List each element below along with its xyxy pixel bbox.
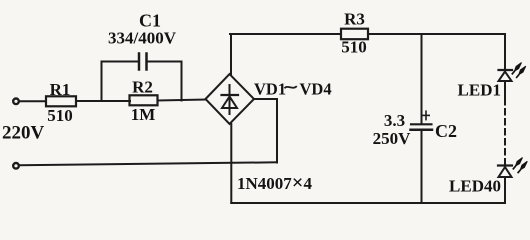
bridge diode line	[229, 85, 231, 114]
wire LED branch top	[504, 34, 506, 70]
svg-text:510: 510	[341, 38, 367, 57]
svg-text:3.3: 3.3	[384, 111, 405, 130]
LED1 cathode bar	[499, 69, 513, 71]
wire C2 branch upper	[421, 34, 423, 124]
capacitor C1 right plate	[145, 54, 148, 70]
svg-text:1M: 1M	[131, 105, 156, 124]
svg-text:1N4007×4: 1N4007×4	[237, 172, 312, 194]
wire bridge top vertex up	[230, 34, 232, 74]
wire C2 branch lower	[421, 131, 423, 204]
resistor R2 body	[130, 95, 158, 105]
svg-text:R1: R1	[50, 80, 71, 99]
svg-text:R2: R2	[132, 78, 153, 97]
node A (left junction of C1 branch)	[101, 62, 103, 102]
bridge rectifier VD1~VD4 diamond	[206, 74, 255, 124]
tilde between VD1 and VD4	[285, 86, 297, 88]
terminal L (220V live)	[13, 99, 19, 105]
LED1 triangle	[499, 72, 512, 82]
capacitor C2 bottom plate	[411, 129, 433, 132]
capacitor C2 top plate	[411, 123, 432, 125]
resistor R3 body	[341, 29, 368, 40]
wire bottom bus	[231, 202, 505, 204]
wire top bus left segment	[230, 33, 341, 35]
resistor R1 body	[46, 96, 76, 106]
terminal N (220V neutral)	[13, 163, 19, 169]
svg-text:250V: 250V	[373, 129, 412, 148]
wire dashed end to LED40	[504, 161, 506, 166]
LED1 light arrows	[512, 63, 526, 79]
svg-text:510: 510	[47, 106, 73, 125]
node B (right junction of C1 branch)	[181, 62, 183, 101]
wire C1 branch top-right	[148, 61, 182, 63]
C2 plus sign	[423, 114, 429, 116]
wire top bus right segment	[368, 33, 505, 35]
wire neutral horizontal	[20, 162, 278, 165]
wire R2 to bridge left vertex	[158, 100, 207, 101]
svg-text:334/400V: 334/400V	[108, 29, 177, 48]
wire terminal to R1	[20, 100, 47, 102]
wire riser to bridge right vertex	[254, 98, 277, 100]
wire dashed (LED string continues)	[504, 99, 506, 161]
bridge diode cathode bar	[222, 94, 239, 96]
svg-text:C1: C1	[139, 11, 161, 31]
svg-text:VD4: VD4	[300, 80, 332, 99]
svg-text:C2: C2	[435, 121, 457, 141]
svg-text:220V: 220V	[2, 123, 45, 144]
capacitor C1 left plate	[138, 54, 141, 70]
wire LED1 to dashed	[504, 81, 506, 99]
wire R1 to R2	[76, 100, 130, 102]
wire neutral riser	[276, 99, 278, 163]
LED40 triangle	[499, 167, 512, 177]
bridge diode triangle	[222, 97, 237, 109]
wire LED40 to bottom bus	[504, 177, 506, 203]
LED40 cathode bar	[498, 164, 512, 166]
svg-text:LED1: LED1	[458, 81, 501, 100]
svg-text:VD1: VD1	[254, 80, 286, 99]
wire C1 branch top-left	[102, 61, 139, 63]
LED40 light arrows	[513, 158, 528, 174]
wire bridge bottom vertex down	[230, 124, 232, 203]
svg-text:LED40: LED40	[449, 177, 501, 196]
svg-text:R3: R3	[344, 10, 365, 29]
